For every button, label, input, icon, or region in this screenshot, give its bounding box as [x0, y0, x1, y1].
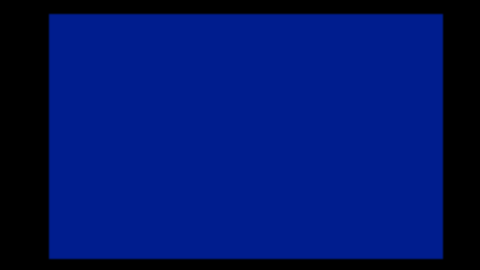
- blue video screen: [49, 14, 444, 259]
